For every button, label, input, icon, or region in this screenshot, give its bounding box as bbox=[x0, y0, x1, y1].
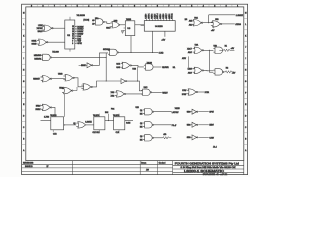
inverter U11A bbox=[121, 79, 127, 84]
junction x106 net bbox=[106, 80, 107, 81]
gate U1B bbox=[110, 22, 120, 28]
gate U15B bbox=[143, 122, 154, 128]
svg-text:74C32: 74C32 bbox=[147, 63, 152, 65]
junction FF1 Q node bbox=[64, 124, 65, 125]
svg-text:RD/WR: RD/WR bbox=[162, 67, 169, 69]
svg-text:74LS74: 74LS74 bbox=[93, 115, 99, 117]
svg-text:5: 5 bbox=[191, 6, 192, 8]
svg-text:LATCH/: LATCH/ bbox=[172, 111, 179, 114]
wire U7A input stub bbox=[79, 64, 87, 66]
wire 1.8MHz to edge bbox=[209, 14, 236, 16]
svg-text:1.8MHZ: 1.8MHZ bbox=[85, 121, 92, 123]
svg-text:XA2: XA2 bbox=[111, 95, 115, 98]
wire U11B out bbox=[152, 91, 162, 93]
wire U3 out to U4 bbox=[135, 24, 145, 26]
svg-text:PAGE 4 of 2: PAGE 4 of 2 bbox=[203, 173, 227, 176]
svg-text:CLK2: CLK2 bbox=[159, 52, 164, 54]
svg-text:CLK2 8: CLK2 8 bbox=[163, 14, 165, 19]
svg-text:A13/: A13/ bbox=[188, 71, 192, 74]
wire vertical x64 to FF row bbox=[64, 94, 66, 117]
junction U5C node bbox=[106, 57, 107, 58]
wire U11D out bbox=[198, 91, 205, 93]
wire U5A input stub b bbox=[43, 30, 44, 32]
wire U10D out to inverter U11A bbox=[92, 81, 121, 87]
resistor R1 bbox=[223, 49, 229, 51]
gate U9A bbox=[193, 47, 204, 53]
svg-text:Q1: Q1 bbox=[73, 123, 75, 125]
wire U9B out to R1 bbox=[219, 49, 223, 51]
svg-text:Q3: Q3 bbox=[140, 136, 142, 138]
svg-text:OUT0 1: OUT0 1 bbox=[149, 13, 151, 18]
wire U15B out bbox=[154, 124, 172, 126]
wire vertical x209 bbox=[208, 50, 210, 72]
wire R1 to +5V bbox=[230, 49, 235, 51]
wire U7A out up to U7B bbox=[93, 53, 108, 65]
wire A15 vertical to U9C bbox=[189, 56, 194, 69]
gate U10A bbox=[41, 76, 52, 82]
svg-text:1.8MHZ: 1.8MHZ bbox=[236, 15, 244, 17]
wire U1A out to U1B bbox=[104, 22, 110, 24]
decoder U2 74LS138 bbox=[65, 20, 75, 49]
svg-text:3: 3 bbox=[214, 6, 215, 8]
border inner frame bbox=[26, 7, 244, 161]
counter U3 left pin stubs bbox=[124, 27, 126, 29]
svg-text:KEY/: KEY/ bbox=[209, 125, 214, 127]
svg-text:BWR/: BWR/ bbox=[35, 109, 40, 111]
svg-text:74LS138: 74LS138 bbox=[77, 15, 86, 17]
svg-text:REVISIONS: REVISIONS bbox=[23, 162, 34, 164]
wire U5A input stub a bbox=[43, 24, 44, 26]
svg-text:DT/R: DT/R bbox=[205, 92, 210, 94]
svg-text:2/4: 2/4 bbox=[185, 19, 188, 21]
wire FF1 Q to gate U13C bbox=[64, 124, 77, 126]
svg-text:13: 13 bbox=[72, 31, 74, 33]
gate U11B bbox=[141, 89, 152, 95]
gate U10C bbox=[62, 87, 73, 93]
wire U13B preset stub bbox=[98, 114, 100, 117]
svg-text:FOURTH GENERATION SYSTEMS Pty: FOURTH GENERATION SYSTEMS Pty Ltd bbox=[175, 161, 240, 165]
svg-text:+5V: +5V bbox=[161, 40, 165, 42]
timer U4 top pins bbox=[145, 19, 147, 21]
svg-text:4: 4 bbox=[203, 6, 204, 8]
gate U5B bbox=[37, 39, 48, 45]
svg-text:SPK/: SPK/ bbox=[209, 112, 214, 114]
wire U4 bottom pin to clock net bbox=[152, 31, 154, 52]
inverter U7A bbox=[87, 63, 93, 68]
flip-flop U13A bbox=[51, 117, 64, 130]
svg-text:CLK0 9: CLK0 9 bbox=[146, 14, 148, 19]
flip-flop U14A bbox=[114, 117, 125, 130]
svg-text:A9: A9 bbox=[92, 19, 94, 22]
svg-text:CLK CLR: CLK CLR bbox=[93, 132, 101, 134]
svg-text:A14: A14 bbox=[189, 23, 192, 26]
svg-text:BRD/: BRD/ bbox=[36, 105, 41, 107]
svg-text:R2: R2 bbox=[226, 68, 228, 70]
resistor R2 bbox=[225, 71, 231, 73]
wire U16C input stub bbox=[187, 136, 193, 138]
title block divider 2 bbox=[139, 161, 141, 175]
svg-text:SN7404: SN7404 bbox=[103, 49, 110, 51]
svg-text:LS200-1 SCHEMATIC: LS200-1 SCHEMATIC bbox=[184, 169, 224, 173]
gate U11C bbox=[115, 91, 126, 97]
wire vertical to 1.8MHz net bbox=[208, 15, 210, 23]
svg-text:9: 9 bbox=[146, 6, 147, 8]
title block row lines right bbox=[173, 164, 244, 166]
svg-text:S0M0: S0M0 bbox=[32, 44, 37, 46]
svg-text:ISSUE B: ISSUE B bbox=[25, 166, 33, 168]
wire x209 into U9D bbox=[209, 71, 213, 73]
gate U10D bbox=[81, 84, 92, 90]
junction clock net at U3 drop bbox=[130, 52, 131, 53]
svg-text:11: 11 bbox=[72, 36, 74, 38]
svg-text:1: 1 bbox=[237, 6, 238, 8]
svg-text:MEMR/: MEMR/ bbox=[34, 59, 41, 61]
wire vertical x137 tap bbox=[137, 67, 139, 81]
svg-text:Drawn: Drawn bbox=[141, 161, 146, 164]
wire U16C output bbox=[198, 136, 209, 138]
junction FF2 Q node bbox=[108, 120, 109, 121]
wire into U6B bbox=[209, 22, 213, 24]
wire U5C output east bbox=[52, 56, 107, 58]
gate U15A bbox=[143, 109, 154, 115]
gate U5A bbox=[42, 25, 53, 31]
svg-text:74393: 74393 bbox=[126, 19, 131, 21]
gate U11D bbox=[187, 89, 198, 95]
svg-text:0.9M: 0.9M bbox=[126, 123, 130, 125]
wire U6A out bbox=[203, 22, 209, 24]
svg-text:Checked: Checked bbox=[159, 162, 166, 164]
svg-text:CAS/: CAS/ bbox=[209, 136, 214, 139]
svg-text:6: 6 bbox=[180, 6, 181, 8]
wire R3 out bbox=[169, 137, 171, 139]
wire U9C out to U9D bbox=[204, 69, 214, 71]
svg-text:9: 9 bbox=[31, 6, 32, 8]
svg-text:Q1: Q1 bbox=[140, 110, 142, 112]
svg-text:Q2: Q2 bbox=[140, 123, 142, 125]
svg-text:U10C: U10C bbox=[59, 88, 64, 90]
wire U4 gate pin stub bbox=[164, 31, 166, 37]
svg-text:1.79M: 1.79M bbox=[44, 117, 49, 119]
timer U4 8253 bbox=[144, 21, 175, 32]
svg-text:MEMW/: MEMW/ bbox=[34, 55, 42, 57]
wire U8A out to U8B bbox=[131, 65, 144, 67]
wire U16A output bbox=[198, 111, 209, 113]
svg-text:8: 8 bbox=[43, 6, 44, 8]
inverter U16C bbox=[192, 135, 198, 140]
gate U1A bbox=[94, 19, 105, 25]
wire U13A clr stub bbox=[52, 130, 54, 132]
svg-text:OUT2 7: OUT2 7 bbox=[166, 13, 168, 18]
svg-text:OUT1 4: OUT1 4 bbox=[157, 13, 159, 18]
wire U15C out to R3 bbox=[154, 137, 163, 139]
svg-text:ML: ML bbox=[173, 67, 176, 69]
svg-text:A15: A15 bbox=[189, 20, 192, 23]
svg-text:470: 470 bbox=[163, 134, 166, 136]
border outer frame bbox=[22, 4, 248, 174]
wire U6B input 2 stub bbox=[213, 26, 215, 28]
wire U6B out to edge bbox=[222, 23, 235, 25]
wire U14A preset stub bbox=[118, 114, 120, 117]
gate U15C bbox=[143, 135, 154, 141]
svg-text:XA3: XA3 bbox=[111, 91, 115, 94]
svg-text:VCC 24: VCC 24 bbox=[172, 13, 174, 18]
svg-text:WAIT/: WAIT/ bbox=[162, 92, 168, 95]
wire vertical bus x106 bbox=[105, 53, 107, 81]
svg-text:XA17: XA17 bbox=[187, 47, 192, 50]
svg-text:A16/: A16/ bbox=[188, 51, 192, 54]
gate U6B bbox=[211, 21, 222, 27]
svg-text:L: L bbox=[23, 24, 24, 26]
svg-text:AT/A0: AT/A0 bbox=[235, 23, 241, 26]
title block right edge bbox=[243, 161, 245, 175]
svg-text:4: 4 bbox=[88, 6, 89, 8]
wire U10A out to U10B bbox=[52, 78, 65, 80]
svg-text:JW: JW bbox=[146, 170, 149, 172]
junction x137 tap bbox=[137, 81, 138, 82]
svg-text:15: 15 bbox=[72, 26, 74, 28]
svg-text:SA0: SA0 bbox=[116, 66, 120, 69]
svg-text:S0M1: S0M1 bbox=[32, 40, 37, 42]
svg-text:L2M/: L2M/ bbox=[188, 68, 193, 70]
wire U14A clr stub bbox=[118, 130, 120, 132]
wire U9D out to R2 bbox=[224, 71, 226, 73]
svg-text:J1-4: J1-4 bbox=[213, 146, 217, 148]
wire U11C out to U11B bbox=[126, 93, 142, 95]
wire U10A input stub bbox=[40, 76, 42, 78]
junction U9A node bbox=[209, 50, 210, 51]
svg-text:[74C6]: [74C6] bbox=[84, 20, 90, 22]
wire U10B out down to U10D bbox=[74, 78, 84, 87]
counter U3 bbox=[125, 21, 135, 36]
wire U4 left pin stub bbox=[141, 25, 145, 27]
svg-text:SA1: SA1 bbox=[116, 62, 120, 65]
wire U5A output to U2 bbox=[53, 27, 65, 29]
wire U5B output to U2 bbox=[48, 41, 65, 43]
wire U13C out to FF2 bbox=[86, 124, 94, 126]
svg-text:SA17: SA17 bbox=[106, 26, 110, 29]
gate U12A bbox=[41, 104, 52, 110]
svg-text:L2M/: L2M/ bbox=[38, 25, 43, 27]
gate U7B bbox=[108, 49, 119, 55]
gate U9B bbox=[213, 47, 222, 53]
wire U7B out east bbox=[119, 51, 158, 53]
svg-text:27: 27 bbox=[47, 166, 49, 168]
border left zone ticks bbox=[22, 17, 26, 19]
wire U12A out to FF1 bbox=[52, 107, 55, 116]
wire U16B input stub bbox=[187, 124, 193, 126]
svg-text:U4C: U4C bbox=[144, 87, 148, 89]
wire U16B output bbox=[198, 124, 209, 126]
svg-text:74125: 74125 bbox=[175, 108, 180, 110]
svg-text:P04: P04 bbox=[111, 109, 114, 111]
svg-text:U15: U15 bbox=[136, 107, 139, 109]
svg-text:J: J bbox=[245, 47, 246, 49]
svg-text:7: 7 bbox=[168, 6, 169, 8]
decoder U2 output pins with bubbles bbox=[74, 26, 77, 28]
flip-flop U13B bbox=[94, 117, 105, 130]
svg-text:P1.4/: P1.4/ bbox=[172, 125, 177, 127]
wire U2 bottom pin stub bbox=[69, 49, 71, 52]
svg-text:2: 2 bbox=[226, 6, 227, 8]
border right zone ticks bbox=[244, 17, 248, 19]
svg-text:74LS00: 74LS00 bbox=[52, 51, 59, 53]
svg-text:CLK1 5: CLK1 5 bbox=[154, 14, 156, 19]
svg-text:14: 14 bbox=[72, 29, 74, 31]
svg-text:74LS74: 74LS74 bbox=[50, 115, 56, 117]
svg-text:XIOW/: XIOW/ bbox=[37, 28, 43, 30]
wire U1B out to U3 bbox=[118, 24, 125, 26]
svg-text:R1: R1 bbox=[225, 46, 227, 48]
svg-text:0: 0 bbox=[134, 6, 135, 8]
wire B02 drop bbox=[107, 114, 109, 121]
title block divider 3 bbox=[157, 161, 159, 175]
svg-text:B02: B02 bbox=[105, 112, 108, 114]
junction U6A out node bbox=[208, 22, 209, 23]
gate U8B bbox=[144, 64, 153, 70]
wire U3 bottom pin down bbox=[130, 36, 132, 53]
gate U9D bbox=[213, 69, 224, 75]
wire U2 top pin stub bbox=[69, 17, 71, 20]
svg-text:10: 10 bbox=[72, 38, 74, 40]
wire U11A out to U11B bbox=[127, 81, 142, 91]
svg-text:74LS74: 74LS74 bbox=[113, 115, 119, 117]
wire U10C out stub bbox=[73, 87, 77, 91]
svg-text:A8: A8 bbox=[92, 22, 94, 25]
inverter U16A bbox=[192, 109, 198, 114]
svg-text:L: L bbox=[245, 24, 246, 26]
junction clock net at U4 drop bbox=[152, 52, 153, 53]
border top zone ticks bbox=[36, 4, 38, 7]
resistor R3 bbox=[163, 137, 169, 139]
gate U5C bbox=[41, 54, 52, 60]
title block divider 4 bbox=[172, 161, 174, 175]
svg-text:7: 7 bbox=[54, 6, 55, 8]
svg-text:2: 2 bbox=[111, 6, 112, 8]
title block divider 1 bbox=[72, 161, 74, 175]
title block table lines bbox=[22, 163, 173, 165]
gate U10B bbox=[63, 75, 74, 81]
svg-text:SPR/: SPR/ bbox=[77, 43, 82, 45]
svg-text:6: 6 bbox=[65, 6, 66, 8]
svg-text:IOR/: IOR/ bbox=[182, 90, 186, 92]
svg-text:AT5/: AT5/ bbox=[182, 57, 186, 60]
svg-text:8: 8 bbox=[157, 6, 158, 8]
wire R2 out bbox=[232, 71, 234, 73]
svg-text:1: 1 bbox=[123, 6, 124, 8]
wire U8B out bbox=[153, 66, 161, 68]
wire U15A out bbox=[154, 111, 172, 113]
wire FF2 Q to FF3 bbox=[105, 120, 114, 122]
wire U13B clr stub bbox=[98, 130, 100, 132]
gate U6A bbox=[192, 20, 203, 26]
wire U9A out to U9B bbox=[204, 49, 214, 51]
svg-text:12: 12 bbox=[72, 33, 74, 35]
inverter U16B bbox=[192, 122, 198, 127]
gate U13C bbox=[76, 122, 86, 128]
capacitor C1 bbox=[121, 30, 124, 32]
wire FF3 Q out bbox=[125, 120, 133, 122]
wire U16A input stub bbox=[187, 111, 193, 113]
svg-text:IOW/: IOW/ bbox=[182, 94, 187, 96]
svg-text:U4 8253: U4 8253 bbox=[155, 26, 163, 28]
wire FF1 D input bbox=[41, 120, 51, 122]
gate U8A bbox=[121, 62, 132, 68]
svg-text:J: J bbox=[23, 47, 24, 49]
gate U9C bbox=[193, 67, 204, 73]
svg-text:5: 5 bbox=[77, 6, 78, 8]
svg-text:3: 3 bbox=[100, 6, 101, 8]
svg-text:RESET: RESET bbox=[33, 79, 40, 81]
